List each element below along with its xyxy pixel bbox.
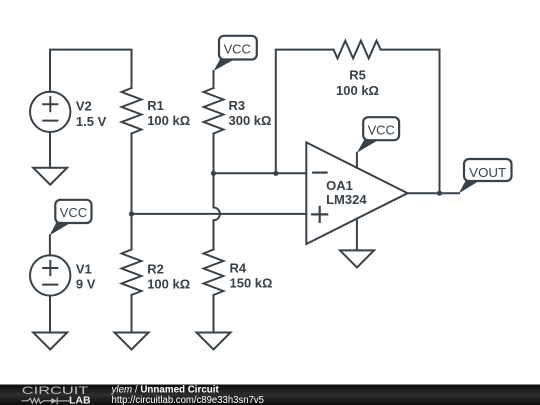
wire minus input net xyxy=(214,172,307,174)
svg-text:R3: R3 xyxy=(229,98,246,113)
svg-text:100 kΩ: 100 kΩ xyxy=(336,83,379,98)
voltage source V1 xyxy=(30,255,96,295)
net flag VOUT xyxy=(459,159,512,193)
ground below R2 xyxy=(115,333,149,350)
wire VCC to R3 top xyxy=(213,71,215,88)
wire output xyxy=(408,192,459,194)
svg-text:100 kΩ: 100 kΩ xyxy=(147,113,190,128)
wire V2 bottom xyxy=(49,132,51,168)
footer bar xyxy=(0,385,540,405)
ground below R4 xyxy=(197,333,231,350)
svg-text:OA1: OA1 xyxy=(326,178,353,193)
svg-text:R2: R2 xyxy=(147,261,164,276)
net flag VCC above R3 xyxy=(214,36,257,71)
wire op-amp ground pin xyxy=(356,219,358,251)
svg-text:100 kΩ: 100 kΩ xyxy=(147,277,190,292)
wire R3 bottom to hop xyxy=(213,134,215,208)
wire R5 right branch xyxy=(381,50,440,194)
svg-text:http://circuitlab.com/c89e33h3: http://circuitlab.com/c89e33h3sn7v5 xyxy=(112,395,265,405)
svg-text:VOUT: VOUT xyxy=(469,165,506,180)
svg-text:1.5 V: 1.5 V xyxy=(76,114,107,129)
svg-text:V1: V1 xyxy=(76,261,92,276)
ground below op-amp xyxy=(340,250,374,267)
svg-text:LM324: LM324 xyxy=(326,192,367,207)
svg-text:9 V: 9 V xyxy=(76,277,96,292)
svg-text:V2: V2 xyxy=(76,99,92,114)
net flag VCC above op-amp xyxy=(357,117,399,153)
resistor R1 xyxy=(122,88,191,134)
resistor R2 xyxy=(122,250,191,296)
wire R1 bottom to R2 top xyxy=(131,134,133,250)
wire hop over plus input xyxy=(214,208,220,221)
svg-text:VCC: VCC xyxy=(224,41,252,56)
resistor R4 xyxy=(204,250,273,296)
svg-text:150 kΩ: 150 kΩ xyxy=(230,276,273,291)
wire R5 left branch xyxy=(276,50,334,174)
ground below V1 xyxy=(33,333,67,350)
svg-text:R4: R4 xyxy=(230,260,247,275)
resistor R5 xyxy=(334,41,381,98)
node output junction xyxy=(437,191,442,196)
node R5 minus junction xyxy=(273,171,278,176)
wire R2 bottom xyxy=(131,295,133,333)
ground below V2 xyxy=(33,168,67,185)
node R1-R2 plus junction xyxy=(129,211,134,216)
svg-text:VCC: VCC xyxy=(368,122,396,137)
net flag VCC above V1 xyxy=(50,200,92,236)
svg-text:VCC: VCC xyxy=(60,205,88,220)
wire op-amp VCC pin xyxy=(356,153,358,168)
voltage source V2 xyxy=(30,92,107,132)
logo resistor zigzag xyxy=(22,398,43,403)
wire hop to R4 top xyxy=(213,220,215,249)
resistor R3 xyxy=(204,88,272,134)
wire VCC to V1 top xyxy=(49,235,51,255)
svg-text:ylem / Unnamed Circuit: ylem / Unnamed Circuit xyxy=(111,385,220,396)
svg-text:300 kΩ: 300 kΩ xyxy=(229,113,272,128)
svg-text:R1: R1 xyxy=(147,98,164,113)
wire V1 bottom xyxy=(49,296,51,333)
wire R4 bottom xyxy=(213,295,215,333)
wire V2 top to R1 top xyxy=(50,50,132,92)
wire plus input net xyxy=(132,213,307,215)
svg-text:R5: R5 xyxy=(349,68,366,83)
node R3-R4 minus junction xyxy=(211,171,216,176)
svg-text:LAB: LAB xyxy=(69,395,91,405)
op-amp OA1 xyxy=(306,142,407,244)
logo diode xyxy=(44,398,69,404)
